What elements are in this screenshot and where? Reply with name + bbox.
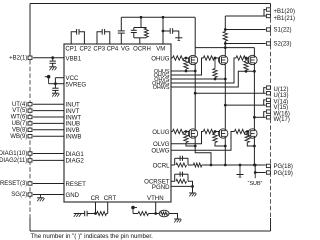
ground VBB1 cap [49,66,56,68]
svg-text:RESET: RESET [66,181,87,188]
svg-text:CRT: CRT [104,195,117,202]
svg-text:VTHN: VTHN [147,195,164,202]
svg-text:OHUG: OHUG [151,55,170,62]
resistor OHUG gate [171,57,173,59]
wire V output [225,104,265,106]
resistor V gate-source [214,57,217,60]
resistor VTHN divider [133,213,138,215]
node VM bypass tap [162,30,165,33]
svg-text:OCRL: OCRL [153,162,171,169]
capacitor CP3-CP4 [97,32,102,44]
wire OCRH to pin [139,38,141,44]
wire +B1 drop to shunt [224,16,226,32]
wire VCC-5VREG tie [54,78,56,88]
wire V low drain [224,105,226,129]
resistor OHVG gate [203,56,214,60]
ground VM cap [175,37,182,39]
svg-text:S2(23): S2(23) [274,42,292,48]
svg-text:RESET(3): RESET(3) [0,181,27,187]
node PGND junction [191,185,194,188]
transistor Q6 low-side W [248,129,257,138]
capacitor VBB1 bypass [52,58,54,61]
transistor Q5 low-side V [219,129,228,138]
test point VTHN [131,206,135,210]
wire top rail drop to +B1(20) [270,4,272,8]
resistor OLWG gate [234,129,245,133]
wire VM riser [162,17,164,44]
ground thermistor [174,218,181,220]
svg-text:UB(7): UB(7) [12,121,28,127]
test point 5V [47,75,51,79]
wire 5VREG [49,83,64,85]
wire U output [195,92,266,94]
capacitor VCC bypass [52,87,58,89]
transistor Q3 high-side W [248,55,257,64]
wire VM rail drop to drain bus [194,17,196,47]
resistor CR-CRT [97,212,107,216]
svg-text:DIAG2(11): DIAG2(11) [0,158,27,164]
wire W output [254,116,265,118]
svg-text:PG(19): PG(19) [274,171,293,177]
svg-text:DIAG2: DIAG2 [66,158,85,165]
wire W(16) bracket [264,112,266,118]
wire +B1 rail [225,15,266,17]
wire OCRH riser [140,17,142,27]
svg-text:CR: CR [91,195,100,202]
resistor W gate-source [245,57,248,60]
svg-text:+B1(21): +B1(21) [274,16,296,22]
wire U source [194,65,196,71]
ground CR cap [74,213,81,215]
wire W low drain [253,117,255,129]
wire PG(19) bracket [255,165,266,173]
wire substrate stub [254,173,256,179]
svg-text:CP1: CP1 [65,46,77,52]
wire W drain [253,48,255,56]
frame bottom line [30,230,271,232]
wire U low drain [194,93,196,129]
wire U drain [194,48,196,56]
wire S1 sense [225,29,265,31]
svg-text:OHWS: OHWS [153,85,170,91]
wire V drain [224,48,226,56]
wire OCRSET to RC [171,180,175,182]
wire OHUS [171,70,195,72]
transistor Q2 high-side V [219,55,228,64]
RC network OCRSET [175,173,188,175]
wire OHWG [171,58,236,83]
wire U low source jog [195,138,211,165]
svg-text:DIAG1(10): DIAG1(10) [0,151,27,157]
wire W output column [253,71,255,117]
svg-text:W(17): W(17) [274,117,290,123]
svg-text:OLWG: OLWG [151,148,169,155]
node S1 tap [224,28,227,31]
svg-text:VT(5): VT(5) [12,108,27,114]
svg-text:VM: VM [156,46,165,52]
wire V(14) bracket [264,100,266,105]
wire CRT riser [107,202,109,214]
wire CR riser [95,202,97,214]
resistor OHWG gate [236,56,247,60]
ground PG bus [239,165,241,175]
node OCRH tap on VM rail [140,16,143,19]
wire +B1(20) bracket [264,10,266,17]
wire VCC [55,77,64,79]
svg-text:CP3: CP3 [93,46,105,52]
capacitor VG-VM [120,33,122,44]
ground SG [40,195,42,198]
connector boundary left (dashed) [29,60,31,218]
svg-text:U(13): U(13) [274,93,289,99]
wire OLVG [171,132,203,144]
svg-text:SG(2): SG(2) [11,192,27,198]
wire +B supply top rail [30,3,271,5]
node drain bus V [224,46,227,49]
wire W low source [253,138,255,165]
wire PG bus [202,164,266,166]
RC network OCRL [175,157,188,159]
wire thermistor to ground [169,214,178,220]
ground VCC cap [52,92,59,94]
svg-text:The number in "( )" indicates: The number in "( )" indicates the pin nu… [31,233,154,240]
wire drain bus [195,47,254,49]
svg-text:UT(4): UT(4) [12,102,27,108]
wire SG to GND [33,194,64,196]
svg-text:VG: VG [121,46,130,52]
node CR [94,212,97,215]
transistor Q4 low-side U [188,129,197,138]
node VM riser junction [162,16,165,19]
resistor OLUG gate [171,131,173,133]
svg-text:5VREG: 5VREG [66,82,87,89]
wire V output column [224,79,226,105]
svg-text:VB(8): VB(8) [12,127,27,133]
resistor OCRL series [188,164,193,166]
thermistor TH1 [156,213,160,215]
svg-text:INWB: INWB [66,134,82,141]
svg-text:OCRH: OCRH [133,46,151,52]
svg-text:WB(9): WB(9) [10,134,27,140]
wire left boundary to frame corner [29,218,31,231]
node S2 tap [224,42,227,45]
resistor U gate-source [185,57,188,60]
svg-text:PGND: PGND [152,184,170,191]
wire OHVS [171,78,225,80]
wire shunt to drain bus [224,41,226,48]
wire U output column [194,71,196,93]
node VTHN [154,212,157,215]
wire right boundary to frame corner [270,218,272,231]
resistor shunt R-S [223,32,227,42]
node VBB1 bypass tap [51,56,54,59]
resistor U low gate-source [185,130,188,133]
IC U1 outline [64,44,171,202]
svg-text:GND: GND [66,192,80,199]
svg-text:PG(18): PG(18) [274,164,293,170]
node PG(19) tap [254,164,257,167]
svg-text:V(15): V(15) [274,105,289,111]
connector boundary right (dashed) [270,12,272,219]
wire U(12) bracket [264,88,266,94]
ground PGND [189,192,196,194]
resistor V low gate-source [214,130,217,133]
wire OCRL to RC [171,164,175,166]
capacitor CR [87,213,95,215]
resistor OLVG gate [203,129,214,133]
svg-text:+B2(1): +B2(1) [9,55,27,61]
capacitor CP1-CP2 [71,32,76,44]
resistor W low gate-source [246,130,249,133]
svg-text:CP2: CP2 [79,46,91,52]
wire S2 sense [225,43,265,45]
capacitor VM bypass [163,30,170,32]
wire VTHN riser [155,202,157,214]
node PG bus U jog [210,164,213,167]
svg-text:S1(22): S1(22) [274,28,292,34]
node VCC/5VREG junction [54,82,57,85]
svg-text:+B1(20): +B1(20) [274,9,296,15]
wire VM rail [121,16,195,18]
wire W source [253,65,255,72]
node PG bus V [224,164,227,167]
svg-text:WT(6): WT(6) [11,115,28,121]
wire V low source [224,138,226,165]
svg-text:VBB1: VBB1 [66,55,82,62]
svg-text:OLUG: OLUG [152,129,170,136]
svg-text:CP4: CP4 [107,46,119,52]
wire OHVG [171,58,203,75]
node PG bus W [253,164,256,167]
wire PGND [171,185,193,187]
wire +B2 to VBB1 [33,57,64,59]
RC network OCRH [134,27,147,29]
wire OHWS [171,71,254,87]
svg-text:“SUB”: “SUB” [248,181,263,187]
node PG bus ground tap [239,164,242,167]
wire OCRSET RC to ground [188,181,193,193]
wire V source [224,65,226,79]
transistor Q1 high-side U [188,55,197,64]
wire OLWG [171,132,234,151]
wire +B2 feed from top rail [29,4,31,56]
